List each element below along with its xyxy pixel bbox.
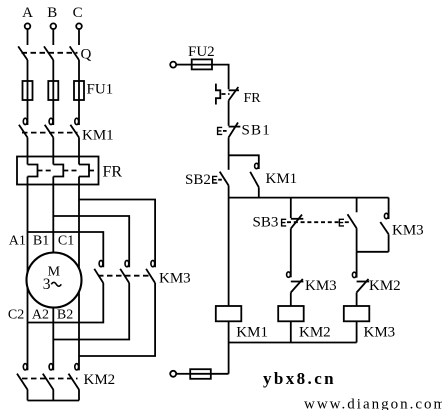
wire KM2 pole 1 to bar bbox=[27, 390, 29, 401]
wire tap phase C to KM3 pole 3 bbox=[79, 200, 155, 268]
svg-text:KM2: KM2 bbox=[369, 278, 401, 294]
wire to bottom fuse bbox=[211, 373, 229, 375]
auxiliary contact KM3 (NC interlock) bbox=[287, 272, 337, 294]
bottom bus bbox=[229, 342, 357, 344]
wire switch to fuses pole C bbox=[78, 60, 80, 125]
node B bbox=[47, 5, 57, 29]
wire FR to motor phase B bbox=[52, 177, 54, 253]
svg-text:C1: C1 bbox=[58, 234, 74, 249]
wire branch to KM1 aux bbox=[229, 155, 259, 169]
wire fuse to terminal bbox=[176, 373, 190, 375]
wire KM3 NC to KM2 coil bbox=[290, 293, 292, 307]
wire C2 to KM3 pole 1 bbox=[28, 283, 104, 323]
svg-text:FR: FR bbox=[244, 91, 262, 106]
svg-text:A1: A1 bbox=[9, 234, 26, 249]
thermal contact FR (NC) bbox=[216, 84, 261, 106]
wire motor to KM2 pole 2 bbox=[52, 308, 54, 371]
wire FU2 to main line bbox=[212, 65, 229, 90]
coil KM3 bbox=[344, 306, 395, 341]
wire motor to KM2 pole 3 bbox=[78, 292, 80, 371]
svg-text:Q: Q bbox=[81, 47, 92, 63]
svg-text:KM2: KM2 bbox=[299, 325, 331, 341]
auxiliary contact KM3 (NO) bbox=[380, 198, 423, 239]
wire SB1 to junction bbox=[228, 137, 230, 169]
wire KM2 NC to KM3 coil bbox=[356, 293, 358, 307]
wire switch to fuses pole B bbox=[52, 60, 54, 125]
svg-text:B2: B2 bbox=[57, 308, 73, 323]
wire KM2 pole 2 to bar bbox=[52, 390, 54, 401]
wire tap phase B to KM3 pole 2 bbox=[53, 216, 129, 267]
svg-text:KM1: KM1 bbox=[82, 128, 114, 144]
wire SB2 to bus bbox=[228, 186, 230, 198]
wire KM3 coil to bus bbox=[356, 321, 358, 342]
parallel bottom bar bbox=[357, 251, 389, 253]
wire terminal to FU2 bbox=[176, 64, 192, 66]
wire KM1 aux to bus bbox=[258, 187, 260, 197]
contactor KM2 main contacts bbox=[17, 364, 115, 390]
wire A2 to KM3 pole 2 bbox=[53, 283, 129, 340]
wire FR to motor phase C bbox=[78, 177, 80, 269]
fuse FU1 bbox=[23, 81, 114, 100]
wire KM1 to FR pole A bbox=[27, 138, 29, 165]
auxiliary contact KM1 (NO self-hold) bbox=[250, 163, 297, 187]
stop button SB1 (NC) bbox=[218, 123, 271, 139]
wire phase C terminal to switch bbox=[78, 30, 80, 45]
wire KM2 coil to bus bbox=[290, 321, 292, 342]
svg-text:KM2: KM2 bbox=[84, 372, 116, 388]
fuse FU2 bbox=[188, 44, 215, 69]
motor M 3~ bbox=[27, 253, 82, 308]
switch Q bbox=[18, 46, 91, 62]
wire switch to fuses pole A bbox=[27, 60, 29, 125]
control bus bbox=[229, 197, 389, 199]
wire phase B terminal to switch bbox=[52, 30, 54, 45]
svg-text:FU2: FU2 bbox=[188, 44, 215, 60]
wire motor to KM2 pole 1 bbox=[27, 287, 29, 370]
svg-text:FU1: FU1 bbox=[87, 82, 114, 98]
svg-text:ybx8.cn: ybx8.cn bbox=[263, 369, 336, 388]
wire bar to KM2 NC bbox=[356, 252, 358, 278]
button SB3 NC contact bbox=[253, 198, 339, 231]
svg-text:KM3: KM3 bbox=[392, 223, 424, 239]
wire SB3 NC to KM3 NC bbox=[290, 229, 292, 278]
svg-text:KM1: KM1 bbox=[236, 325, 268, 341]
auxiliary contact KM2 (NC interlock) bbox=[352, 272, 400, 294]
node C bbox=[73, 5, 83, 29]
svg-text:C: C bbox=[73, 5, 83, 21]
svg-text:SB3: SB3 bbox=[253, 215, 279, 231]
contactor KM3 main contacts bbox=[94, 260, 190, 286]
wire SB3 NO to bar bbox=[356, 228, 358, 252]
svg-text:KM3: KM3 bbox=[305, 278, 337, 294]
control terminal bottom bbox=[170, 371, 176, 377]
wire tap phase A to KM3 pole 1 bbox=[28, 232, 104, 267]
wire B2 to KM3 pole 3 bbox=[79, 283, 155, 356]
svg-text:SB1: SB1 bbox=[242, 123, 271, 139]
wire KM2 pole 3 to bar bbox=[78, 390, 80, 401]
button SB3 NO contact bbox=[339, 198, 356, 229]
wire bus to KM1 coil bbox=[228, 198, 230, 306]
thermal relay FR bbox=[17, 157, 122, 185]
svg-text:www.diangon.com: www.diangon.com bbox=[304, 397, 442, 410]
control terminal top bbox=[170, 62, 176, 68]
wire KM1 to FR pole C bbox=[78, 138, 80, 165]
wire KM1 coil down bbox=[228, 321, 230, 374]
start button SB2 (NO) bbox=[185, 172, 229, 188]
wire KM1 to FR pole B bbox=[52, 138, 54, 165]
svg-text:B: B bbox=[47, 5, 57, 21]
svg-text:KM3: KM3 bbox=[364, 325, 396, 341]
wire KM3 aux to bar bbox=[388, 234, 390, 252]
wire phase A terminal to switch bbox=[27, 30, 29, 45]
fuse FU2 lower bbox=[190, 369, 211, 379]
svg-text:B1: B1 bbox=[33, 234, 49, 249]
svg-text:C2: C2 bbox=[8, 308, 24, 323]
node A bbox=[22, 5, 33, 29]
svg-text:3: 3 bbox=[43, 276, 51, 293]
svg-text:FR: FR bbox=[103, 164, 123, 181]
contactor KM1 main contacts bbox=[19, 118, 114, 143]
svg-text:A2: A2 bbox=[32, 308, 49, 323]
wire FR to SB1 bbox=[228, 101, 230, 126]
svg-text:SB2: SB2 bbox=[185, 172, 211, 188]
svg-text:KM1: KM1 bbox=[266, 171, 298, 187]
svg-text:KM3: KM3 bbox=[159, 271, 191, 287]
star shorting bar bbox=[28, 400, 80, 402]
coil KM1 bbox=[216, 306, 268, 341]
svg-text:A: A bbox=[22, 5, 33, 21]
wire FR to motor phase A bbox=[27, 177, 29, 273]
coil KM2 bbox=[278, 306, 330, 341]
